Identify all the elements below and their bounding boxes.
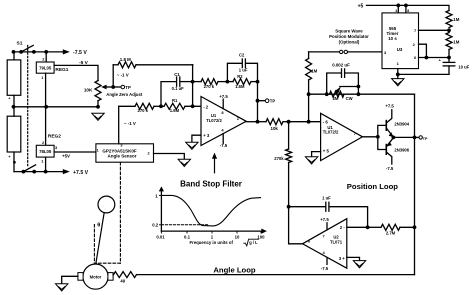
resistor 1M timer a <box>446 11 452 28</box>
wire pot bottom <box>97 101 99 107</box>
wire 1.8M down to inverting node <box>192 65 194 107</box>
svg-text:- 2: - 2 <box>203 105 209 110</box>
junction rail at 2.7M <box>413 225 417 229</box>
svg-text:-7.5 V: -7.5 V <box>73 50 87 56</box>
svg-text:Angle Loop: Angle Loop <box>213 266 256 275</box>
svg-text:+: + <box>8 96 11 101</box>
svg-text:CW: CW <box>346 96 353 101</box>
regulator REG2 78L05 box <box>36 145 54 157</box>
node D junction <box>256 80 260 84</box>
switch S1 bottom blade <box>23 165 35 172</box>
node H junction <box>307 120 311 124</box>
svg-text:10k: 10k <box>271 126 279 131</box>
motor terminal left <box>78 273 83 281</box>
svg-text:+7.5: +7.5 <box>320 217 329 222</box>
svg-text:+5V: +5V <box>62 153 70 158</box>
sensor GP2Y0A51SK0F box <box>96 144 154 162</box>
Q2 collector <box>386 152 392 164</box>
resistor 1M modulator <box>308 80 310 94</box>
wire bottom positive rail <box>14 171 63 173</box>
battery B2 <box>7 116 21 152</box>
wire U1a output <box>246 121 257 123</box>
junction timer divider <box>447 28 451 32</box>
svg-text:TL072/2: TL072/2 <box>206 118 222 123</box>
wire angle loop bottom <box>137 274 415 276</box>
ground U1a input <box>186 142 198 149</box>
wire sensor output up <box>118 106 120 144</box>
svg-text:270k: 270k <box>274 156 284 161</box>
junction pot right <box>357 92 361 96</box>
graph y-axis <box>160 189 162 231</box>
svg-text:79L05: 79L05 <box>39 66 52 71</box>
svg-text:2N3906: 2N3906 <box>394 147 409 152</box>
wire modulator top <box>309 51 340 53</box>
dashed sensing line vertical <box>119 162 121 263</box>
svg-text:2: 2 <box>42 140 45 145</box>
op-amp U1a TL072 <box>201 97 246 146</box>
ground 555 <box>397 74 399 78</box>
resistor 270k vertical <box>288 122 290 149</box>
junction 555 ground node <box>396 73 400 77</box>
svg-text:TP: TP <box>423 137 428 141</box>
junction top rail corner <box>12 50 16 54</box>
svg-text:1M: 1M <box>311 69 317 74</box>
svg-text:1.6M: 1.6M <box>170 108 180 113</box>
svg-text:100: 100 <box>257 234 265 239</box>
svg-text:10 uF: 10 uF <box>458 65 469 70</box>
svg-text:Frequency in units of: Frequency in units of <box>190 240 234 245</box>
wire battery B2 bottom lead <box>13 152 15 172</box>
tick y 0.2 <box>159 224 161 226</box>
pot wiper bracket <box>340 86 359 88</box>
svg-text:+7.5: +7.5 <box>219 94 228 99</box>
pot wiper arrow <box>105 86 114 88</box>
svg-text:1.8 M: 1.8 M <box>120 57 131 62</box>
svg-text:C1: C1 <box>174 72 180 77</box>
wire node D down to output <box>257 82 259 122</box>
svg-text:1.6M: 1.6M <box>235 84 245 89</box>
wire REG1 input <box>45 52 47 62</box>
svg-text:-7.5: -7.5 <box>220 143 228 148</box>
capacitor C1 0.1uF <box>176 77 178 86</box>
svg-text:-5 V: -5 V <box>79 60 89 66</box>
dashed plumb line <box>93 225 95 264</box>
svg-text:-7.5: -7.5 <box>321 266 329 271</box>
svg-text:1M: 1M <box>453 40 459 45</box>
graph x-axis <box>161 230 261 232</box>
node G junction <box>307 92 311 96</box>
ground sensor <box>178 159 190 166</box>
ground U1b input <box>305 157 317 164</box>
U1a V- stub <box>222 134 224 144</box>
resistor 2.7M <box>368 226 381 228</box>
op-amp U1b TL072 <box>321 113 363 160</box>
svg-text:10: 10 <box>235 234 240 239</box>
radical sqrt g/L <box>244 239 259 246</box>
capacitor 10uF <box>443 61 455 63</box>
capacitor C2 loop <box>227 63 241 81</box>
arrow -7.5V rail <box>63 49 70 54</box>
svg-text:78L05: 78L05 <box>39 149 52 154</box>
tick x 0.1 <box>186 231 188 233</box>
battery B1 <box>7 60 21 95</box>
node F junction <box>287 120 291 124</box>
Q1 emitter <box>386 128 393 137</box>
svg-text:3: 3 <box>55 145 58 150</box>
555 pin8 stub <box>405 5 407 12</box>
resistor R1 <box>161 105 164 107</box>
wire top negative rail <box>14 51 63 53</box>
svg-text:1: 1 <box>211 234 214 239</box>
junction REG1 input tap <box>44 50 48 54</box>
svg-text:TL072/2: TL072/2 <box>323 130 339 135</box>
motor M1 <box>83 264 108 289</box>
svg-text:1M: 1M <box>453 17 459 22</box>
tick x 100 <box>260 231 262 233</box>
svg-text:Angle Zero Adjust: Angle Zero Adjust <box>106 92 143 97</box>
wire REG2 input pin <box>45 157 47 172</box>
svg-text:R2: R2 <box>237 74 243 79</box>
wire +5 rail <box>367 5 450 10</box>
tick y 1 <box>159 194 161 196</box>
wire battery B1 top lead <box>13 52 15 60</box>
wire REG2 ground pin <box>45 107 47 146</box>
motor terminal right <box>108 273 113 281</box>
testpoint TP bandstop <box>258 100 266 102</box>
svg-text:+7.5 V: +7.5 V <box>73 170 89 176</box>
svg-text:3 +: 3 + <box>339 256 346 261</box>
capacitor 0.002uF loop <box>327 73 341 94</box>
U1a V+ stub <box>222 99 224 109</box>
svg-text:Band Stop Filter: Band Stop Filter <box>180 180 242 189</box>
U2 V- stub <box>326 258 328 265</box>
wire 555 ground rail <box>398 73 449 75</box>
wire -5V to pot <box>97 80 99 82</box>
wire REG2 output +5V <box>54 151 96 153</box>
svg-text:0.002 uF: 0.002 uF <box>332 63 350 68</box>
svg-text:Motor: Motor <box>90 274 102 279</box>
wire wiper to 1.8M <box>112 65 114 87</box>
tick x 0.01 <box>160 231 162 233</box>
wire U1b output <box>363 136 378 138</box>
svg-text:TL071: TL071 <box>330 239 343 244</box>
wire battery B2 top lead <box>13 107 15 116</box>
svg-text:270 k: 270 k <box>138 108 149 113</box>
node C junction <box>226 80 230 84</box>
wire emitter node to rail <box>393 136 414 138</box>
junction 78L05 input tap <box>44 170 48 174</box>
svg-text:1: 1 <box>97 149 99 153</box>
svg-text:Square Wave: Square Wave <box>335 28 363 33</box>
testpoint TP wiper <box>113 86 121 88</box>
wire 555 pin2 <box>419 44 427 57</box>
svg-text:θ: θ <box>97 222 100 228</box>
junction TP stub <box>256 99 260 103</box>
U2 V+ stub <box>326 223 328 230</box>
svg-text:R1: R1 <box>172 98 178 103</box>
resistor 270k b <box>193 81 201 83</box>
svg-text:Position Loop: Position Loop <box>347 182 399 191</box>
capacitor 1uF feedback <box>289 206 325 208</box>
svg-text:49: 49 <box>120 279 125 284</box>
svg-text:REG2: REG2 <box>48 134 61 140</box>
switch S1 bottom pole contact right <box>32 170 36 174</box>
svg-text:+ 3: + 3 <box>203 133 210 138</box>
resistor 1M timer b <box>448 30 450 32</box>
junction U2 pin2 node <box>366 225 370 229</box>
wire 555 pin1 down <box>397 69 399 75</box>
svg-text:0.1: 0.1 <box>184 234 191 239</box>
timer 555 U3 box <box>382 13 419 69</box>
resistor 270k input a <box>119 105 135 107</box>
svg-text:1 uF: 1 uF <box>239 68 248 73</box>
svg-text:+ 5: + 5 <box>323 149 330 154</box>
svg-text:0.01: 0.01 <box>156 234 165 239</box>
junction 555 pin4 <box>396 4 400 8</box>
svg-text:1: 1 <box>41 75 44 80</box>
resistor 1.8M zero adjust <box>113 64 118 66</box>
junction wiper node <box>111 85 115 89</box>
svg-text:Angle Sensor: Angle Sensor <box>107 154 136 159</box>
svg-text:4: 4 <box>395 9 397 13</box>
base bracket <box>378 125 387 149</box>
switch S1 top pole contact right <box>32 50 36 54</box>
svg-text:1 uF: 1 uF <box>322 196 331 201</box>
graph dashed 0.2 level <box>161 224 209 226</box>
arrow band stop filter <box>214 158 216 173</box>
junction timer cap node <box>447 56 451 60</box>
svg-text:2: 2 <box>147 152 149 156</box>
wire REG1 ground pin <box>45 73 47 107</box>
switch S1 top pole contact left <box>19 50 23 54</box>
wire 555 pin6 <box>419 57 450 59</box>
svg-text:g / L: g / L <box>249 240 258 245</box>
node J junction <box>287 205 291 209</box>
svg-text:10 s: 10 s <box>388 36 397 41</box>
svg-text:1: 1 <box>155 193 158 198</box>
ground motor <box>56 284 68 291</box>
switch S1 linkage dashed <box>27 46 29 168</box>
node mid ground rail <box>14 106 98 108</box>
node B junction <box>191 80 195 84</box>
junction base node <box>376 135 380 139</box>
svg-text:REG1: REG1 <box>55 67 68 73</box>
junction 555 pin8 <box>404 4 408 8</box>
switch S1 bottom pole contact left <box>22 170 26 174</box>
wire sensor pin2 to ground <box>154 154 185 160</box>
junction output node E <box>256 120 260 124</box>
svg-text:+5: +5 <box>358 3 364 9</box>
pendulum ball <box>98 196 115 213</box>
wire motor left to ground <box>62 276 78 284</box>
555 pin4 stub <box>397 5 399 12</box>
wire battery B1 bottom lead <box>13 95 15 107</box>
wire jumper to 555 pin3 <box>348 51 382 53</box>
wire U1b noninv to ground <box>312 152 321 157</box>
jumper circle right <box>344 50 347 53</box>
junction rail at output <box>413 136 417 140</box>
svg-text:1: 1 <box>41 159 44 164</box>
svg-text:2M: 2M <box>333 96 339 101</box>
Q1 collector <box>386 110 392 123</box>
junction emitter node <box>392 136 396 140</box>
svg-text:Position Modulator: Position Modulator <box>329 34 369 39</box>
wire right rail <box>414 94 416 274</box>
wire node A up to C1 <box>161 82 176 107</box>
svg-text:+: + <box>8 154 11 159</box>
junction wiper bracket <box>357 85 361 89</box>
svg-text:2N3904: 2N3904 <box>394 122 409 127</box>
svg-text:TP: TP <box>270 99 276 104</box>
tick x 1 <box>211 231 213 233</box>
wire 555 pin7 <box>419 29 450 31</box>
Q2 emitter <box>386 138 393 147</box>
graph curve <box>162 195 261 226</box>
resistor R2 <box>227 81 233 83</box>
jumper circle left <box>340 50 343 53</box>
svg-text:0.2: 0.2 <box>152 223 159 228</box>
regulator REG1 79L05 box <box>36 62 54 73</box>
dashed sensing line horizontal <box>96 262 121 264</box>
svg-text:0.1 uF: 0.1 uF <box>172 86 185 91</box>
wire node H up to node G <box>308 94 310 122</box>
wire REG1 output -5V <box>54 65 98 80</box>
wire node J down to U2 output <box>289 207 303 244</box>
op-amp U2 TL071 <box>303 219 347 269</box>
svg-text:10K: 10K <box>84 88 93 93</box>
wire feedback row <box>309 93 415 95</box>
switch S1 top blade <box>21 45 33 52</box>
wire node F to U1b <box>289 121 321 123</box>
junction pot left <box>325 92 329 96</box>
svg-text:8: 8 <box>407 9 409 13</box>
transistor Q1 2N3904 base bar <box>385 121 387 131</box>
svg-text:TP: TP <box>125 85 131 90</box>
svg-text:2.7M: 2.7M <box>386 230 396 235</box>
wire U2 inv input <box>347 226 368 228</box>
resistor 49 motor <box>112 274 114 276</box>
svg-text:U3: U3 <box>397 47 403 52</box>
arrow +7.5V rail <box>63 169 70 174</box>
svg-text:+7.5: +7.5 <box>385 104 394 109</box>
tick x 10 <box>236 231 238 233</box>
resistor 10k <box>258 121 267 123</box>
svg-text:-7.5: -7.5 <box>386 166 394 171</box>
svg-text:~ -1 V: ~ -1 V <box>117 73 129 78</box>
svg-text:~ -1 V: ~ -1 V <box>124 121 136 126</box>
pendulum rod <box>96 213 104 264</box>
potentiometer 10K <box>95 81 101 101</box>
node A junction <box>159 104 163 108</box>
svg-text:S1: S1 <box>17 41 23 47</box>
wire U2 noninv to ground <box>347 257 360 260</box>
svg-text:270 k: 270 k <box>204 84 215 89</box>
ground pot bottom <box>92 113 104 120</box>
potentiometer 2M <box>330 91 345 97</box>
ground U2 input <box>353 261 365 268</box>
svg-text:2: 2 <box>42 56 45 61</box>
transistor Q2 2N3906 base bar <box>385 145 387 155</box>
svg-text:3: 3 <box>120 144 122 148</box>
junction pin2 to pin6 <box>425 56 429 60</box>
svg-text:(Optional): (Optional) <box>339 39 360 44</box>
wire U1a noninv to ground <box>192 135 201 142</box>
svg-text:C2: C2 <box>239 53 245 58</box>
svg-text:2 -: 2 - <box>340 225 346 230</box>
testpoint TP output <box>415 136 420 138</box>
